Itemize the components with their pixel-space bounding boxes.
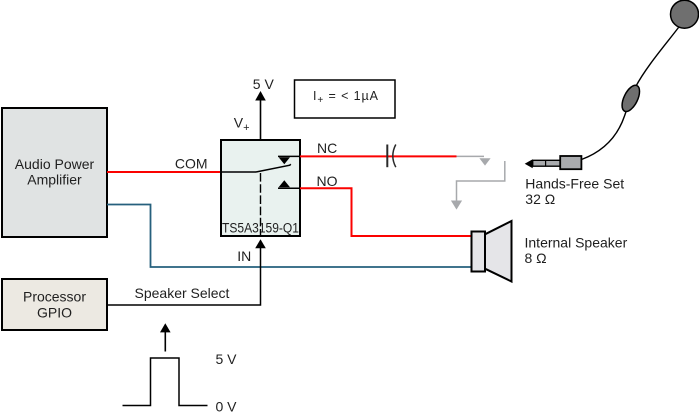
- svg-text:Processor: Processor: [23, 289, 86, 305]
- earbud: [671, 0, 699, 28]
- svg-text:5 V: 5 V: [253, 76, 275, 92]
- svg-text:NC: NC: [317, 140, 337, 156]
- pin stub NO inside switch: [278, 187, 300, 189]
- headset microphone pod: [618, 83, 643, 114]
- NO contact triangle: [279, 180, 290, 187]
- capacitor C1 on NC line: [387, 145, 396, 168]
- V+ pin wire with 5V supply arrow: [255, 91, 266, 139]
- svg-text:Audio Power: Audio Power: [15, 156, 95, 172]
- gray continuation of NC line with down arrow: [457, 156, 491, 165]
- wire NO (red) to internal speaker: [300, 188, 472, 236]
- svg-text:V+: V+: [234, 115, 250, 135]
- wire COM (red) from amplifier to switch: [107, 171, 221, 173]
- pin stub COM inside switch: [222, 171, 256, 173]
- svg-text:Amplifier: Amplifier: [27, 172, 82, 188]
- svg-text:5 V: 5 V: [216, 351, 238, 367]
- wire speaker return (blue) from amplifier to internal speaker: [107, 205, 472, 268]
- svg-text:Hands-Free Set: Hands-Free Set: [525, 175, 624, 191]
- dashed control pole line inside switch: [260, 173, 262, 235]
- svg-text:Speaker Select: Speaker Select: [135, 285, 230, 301]
- svg-text:Internal Speaker: Internal Speaker: [525, 234, 628, 250]
- svg-text:COM: COM: [175, 156, 208, 172]
- svg-text:GPIO: GPIO: [37, 305, 72, 321]
- svg-text:0 V: 0 V: [216, 399, 238, 415]
- wire Speaker Select from GPIO to IN pin with arrow: [107, 239, 266, 305]
- internal speaker LS1: [472, 221, 512, 282]
- NC contact triangle: [279, 157, 290, 164]
- svg-text:NO: NO: [317, 173, 338, 189]
- svg-text:IN: IN: [237, 248, 251, 264]
- pin stub NC inside switch: [278, 155, 300, 157]
- block U2 Audio Power Amplifier: [2, 108, 107, 237]
- headphone jack plug P1: [525, 156, 582, 169]
- svg-text:32 Ω: 32 Ω: [525, 191, 555, 207]
- wire NC (red) to capacitor and jack: [300, 155, 457, 157]
- svg-text:8 Ω: 8 Ω: [525, 250, 547, 266]
- callout box I+ current note: [295, 80, 396, 118]
- control pulse waveform: [123, 358, 208, 406]
- gray return path from jack tip with down arrow: [451, 161, 505, 210]
- headset cord: [582, 28, 679, 160]
- block U1 TS5A3159-Q1 analog switch: [221, 140, 300, 236]
- block U3 Processor GPIO: [2, 279, 107, 330]
- pulse arrow up: [160, 323, 171, 351]
- switch lever (COM to NC): [256, 164, 291, 172]
